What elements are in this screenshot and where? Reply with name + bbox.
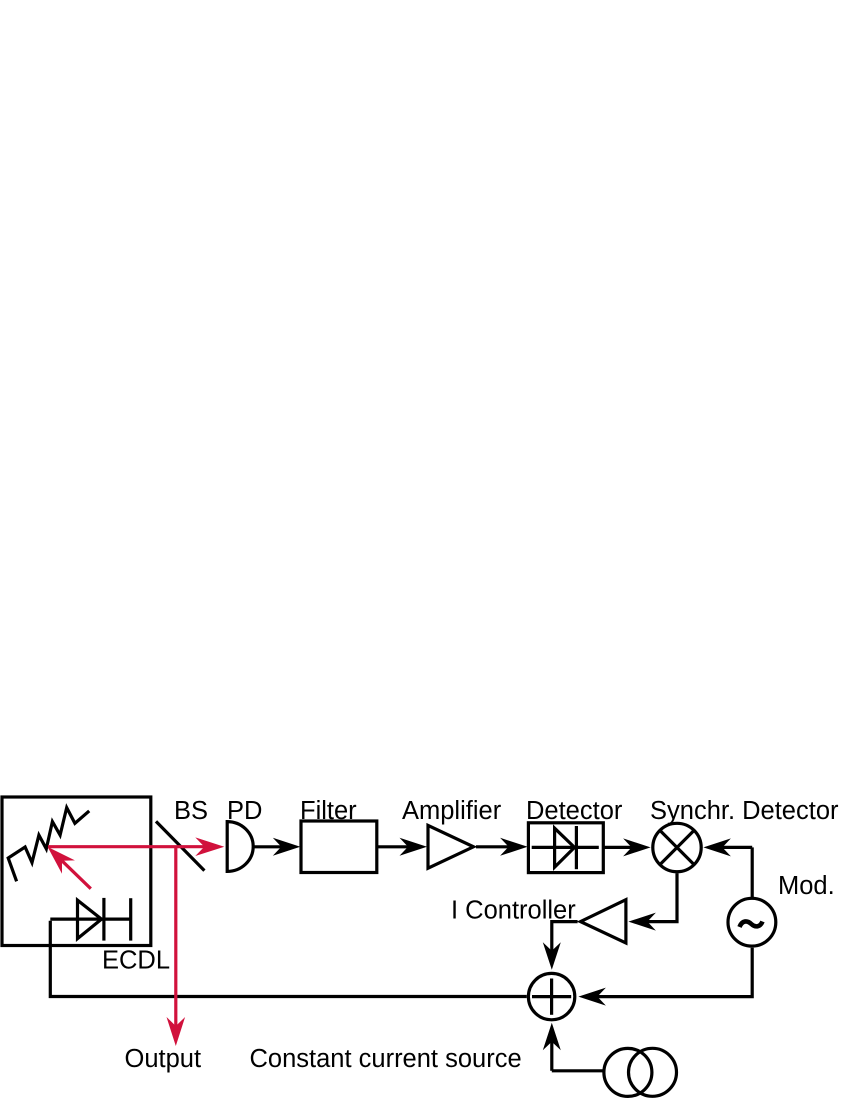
svg-text:Mod.: Mod. bbox=[778, 872, 835, 900]
svg-text:PD: PD bbox=[227, 797, 262, 825]
svg-text:Filter: Filter bbox=[300, 797, 357, 825]
svg-text:Amplifier: Amplifier bbox=[402, 797, 502, 825]
svg-text:ECDL: ECDL bbox=[102, 947, 170, 975]
svg-text:Output: Output bbox=[125, 1045, 202, 1073]
svg-text:Synchr. Detector: Synchr. Detector bbox=[650, 797, 839, 825]
svg-text:I Controller: I Controller bbox=[451, 897, 576, 925]
svg-text:Detector: Detector bbox=[526, 797, 623, 825]
svg-text:BS: BS bbox=[174, 797, 208, 825]
svg-text:Constant current source: Constant current source bbox=[250, 1045, 522, 1073]
